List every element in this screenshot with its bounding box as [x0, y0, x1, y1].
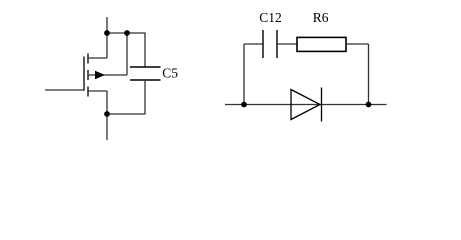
capacitor C5 bottom lead	[144, 80, 146, 114]
wire: lead C12 to R6	[277, 43, 297, 45]
wire: left circuit bottom rail	[107, 113, 146, 115]
wire: gate lead	[45, 89, 84, 91]
node: right circuit left dot	[241, 102, 247, 108]
wire: left circuit top rail	[107, 32, 146, 34]
capacitor C12 right plate	[276, 30, 278, 58]
diode D1 triangle	[291, 90, 320, 120]
wire: left riser	[243, 44, 245, 105]
svg-text:R6: R6	[313, 10, 329, 25]
wire: right riser	[368, 44, 370, 105]
capacitor C5 top lead	[144, 33, 146, 67]
wire: lead R6 to right riser	[347, 43, 369, 45]
capacitor C5 bottom plate	[130, 79, 161, 81]
diode D1 cathode bar	[321, 88, 323, 122]
node: body junction dot	[124, 30, 130, 36]
transistor Q1 source stub	[88, 90, 107, 92]
resistor R6 body	[297, 37, 346, 51]
transistor Q1 gate plate	[83, 57, 85, 91]
wire: source vertical / bottom stub	[106, 91, 108, 140]
wire: body riser	[126, 33, 128, 75]
wire: left circuit top stub / drain vertical	[106, 17, 108, 58]
node: drain junction dot	[104, 30, 110, 36]
svg-text:C5: C5	[162, 65, 178, 80]
transistor Q1 body arrow	[95, 71, 105, 79]
capacitor C12 left plate	[262, 30, 264, 58]
node: source junction dot	[104, 111, 110, 117]
wire: right circuit bottom rail	[225, 104, 387, 106]
transistor Q1 body line	[88, 74, 127, 76]
node: right circuit right dot	[366, 102, 372, 108]
svg-text:C12: C12	[259, 10, 282, 25]
wire: top lead left	[244, 43, 263, 45]
transistor Q1 channel segments	[87, 54, 89, 97]
capacitor C5 top plate	[130, 66, 161, 68]
transistor Q1 drain stub	[88, 57, 107, 59]
